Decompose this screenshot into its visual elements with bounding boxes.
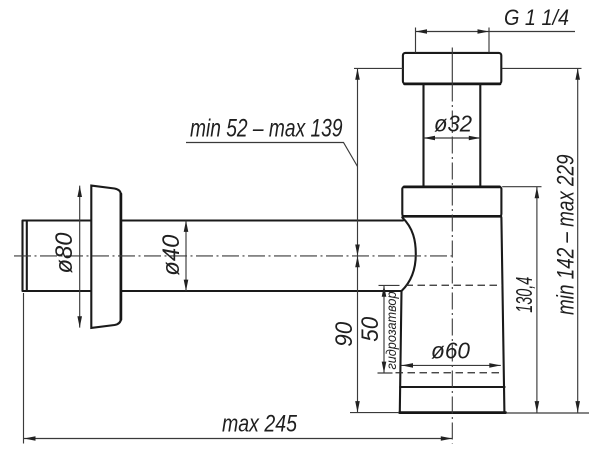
dimension Ø32: dimension line: [424, 137, 481, 139]
svg-text:min 52 – max 139: min 52 – max 139: [190, 115, 343, 143]
bottle body left wall: [400, 291, 402, 412]
dimension G 1 1/4: dimension line: [416, 31, 576, 33]
label гидрозатвор (rotated): [383, 291, 399, 369]
top union nut bottom heavy edge: [405, 83, 501, 86]
svg-text:ø60: ø60: [431, 338, 470, 364]
svg-text:130,4: 130,4: [511, 277, 537, 313]
dimension 50: label (rotated): [357, 316, 384, 342]
bottle bottom heavy edge: [400, 411, 506, 414]
vertical outlet pipe Ø32 right edge: [479, 84, 481, 186]
dimension 50: extension ticks: [378, 285, 400, 373]
bottle collar ring: [402, 187, 501, 217]
top union nut body: [403, 53, 501, 84]
svg-text:ø32: ø32: [434, 111, 472, 137]
svg-text:max 245: max 245: [222, 411, 298, 438]
bottle bottom cap seam: [400, 386, 504, 388]
centerline: bottle vertical axis solid segment through nut: [451, 48, 453, 85]
collar top heavy edge: [404, 186, 499, 189]
bottle body right wall: [501, 218, 504, 412]
dimension 90: label (rotated): [331, 321, 358, 347]
dimension G 1 1/4: arrows: [416, 29, 490, 34]
dimension Ø60: dimension line: [402, 364, 501, 366]
dimension Ø32: arrows: [424, 136, 481, 141]
dimension 50: arrows: [382, 285, 387, 373]
hidden line: dip tube lower level: [396, 372, 503, 374]
dimension max 245: arrows: [24, 436, 452, 441]
dimension 130,4: arrows: [535, 187, 540, 413]
collar bottom heavy edge: [403, 215, 501, 218]
dimension min 52 - max 139 / 90 shared dimension line: [357, 68, 359, 412]
wire: horizontal inlet pipe Ø40 top edge: [23, 219, 404, 221]
dimension min 142 - max 229: bottom extension lines: [350, 412, 589, 414]
dimension min 142 - max 229: dimension line: [577, 68, 579, 412]
dimension G 1 1/4: extension lines: [416, 28, 490, 53]
dimension min 52 - max 139: arrows: [355, 68, 360, 256]
dimension Ø60: arrows: [402, 363, 501, 368]
svg-text:ø40: ø40: [158, 234, 185, 276]
dimension Ø80: label (rotated): [51, 232, 78, 274]
dimension 130,4: label (rotated): [511, 277, 537, 313]
dimension Ø80: arrows: [77, 186, 82, 328]
dimension Ø40: label (rotated): [158, 234, 185, 276]
pipe left end cap outer line: [21, 221, 23, 291]
svg-text:90: 90: [331, 321, 358, 347]
dimension min 52 - max 139: extension line at nut mid: [354, 67, 403, 69]
svg-text:min 142 – max 229: min 142 – max 229: [552, 154, 579, 315]
dimension 90: arrows: [355, 256, 360, 413]
svg-text:G 1 1/4: G 1 1/4: [504, 5, 569, 30]
vertical outlet pipe Ø32 left edge: [422, 84, 424, 186]
svg-text:50: 50: [357, 316, 384, 342]
dimension 50: dimension line: [383, 285, 385, 373]
dimension min 142 - max 229: label (rotated): [552, 154, 579, 315]
dimension Ø40: dimension line: [185, 221, 187, 292]
dimension Ø40: arrows: [184, 221, 189, 292]
wire: horizontal inlet pipe Ø40 bottom edge: [23, 290, 402, 292]
dimension min 52 - max 139: leader under text and slant: [186, 143, 358, 167]
dimension Ø80: dimension line: [79, 186, 81, 328]
dimension 130,4: dimension line: [536, 187, 538, 413]
dimension min 142 - max 229: arrows: [575, 68, 580, 412]
svg-text:ø80: ø80: [51, 232, 78, 274]
bottle body left S-curve: [402, 218, 416, 292]
centerline: bottle vertical axis: [451, 85, 453, 444]
pipe left end cap inner line: [26, 221, 28, 291]
dimension 130,4: extension line at collar top: [502, 186, 541, 188]
flange (wall escutcheon) body: [91, 186, 121, 328]
dimension max 245: left extension line: [23, 293, 25, 444]
svg-text:гидрозатвор: гидрозатвор: [383, 291, 399, 369]
centerline: horizontal pipe axis: [14, 255, 456, 257]
hidden line: water seal upper level: [406, 284, 503, 286]
dimension min 142 - max 229: extension line at nut mid right: [502, 67, 582, 69]
dimension max 245: dimension line: [24, 438, 452, 440]
flange right silhouette edge (heavy): [120, 194, 123, 320]
